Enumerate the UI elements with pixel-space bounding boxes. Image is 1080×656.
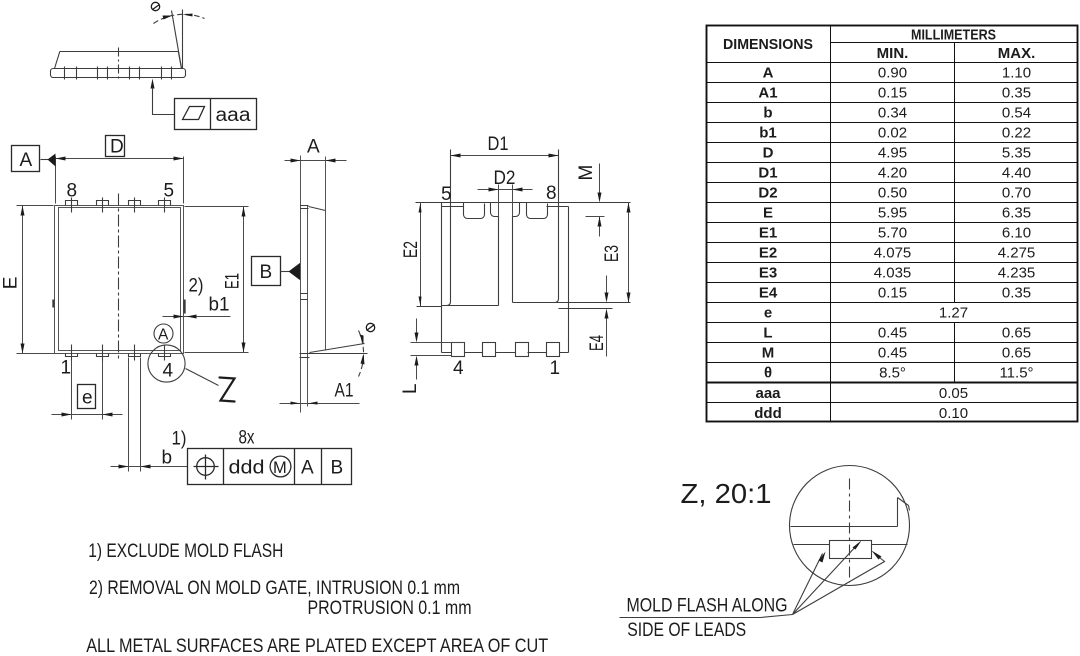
dimension b1 line bbox=[163, 316, 231, 318]
flatness leader arrow to strip bbox=[151, 79, 155, 89]
theta arc arrowhead right bbox=[183, 14, 193, 17]
dimension E1 arrowheads bbox=[242, 207, 246, 217]
M circle modifier bbox=[270, 456, 291, 477]
svg-text:0.35: 0.35 bbox=[1002, 85, 1031, 102]
svg-text:A: A bbox=[307, 137, 320, 158]
svg-text:4.40: 4.40 bbox=[1002, 165, 1031, 182]
pin 1 tick bbox=[71, 345, 73, 361]
svg-text:5: 5 bbox=[164, 181, 175, 202]
side view: theta horizontal reference bbox=[308, 353, 368, 355]
svg-text:B: B bbox=[331, 458, 344, 479]
svg-text:E2: E2 bbox=[401, 241, 422, 258]
svg-text:A1: A1 bbox=[758, 85, 777, 102]
bottom view: pad left edge (D1) bbox=[450, 150, 452, 302]
dimensions table frame bbox=[707, 26, 1078, 422]
dimension E3 line bbox=[628, 203, 630, 303]
svg-text:D2: D2 bbox=[494, 168, 516, 189]
svg-text:4.275: 4.275 bbox=[998, 245, 1036, 262]
dimension A arrowheads bbox=[291, 159, 301, 163]
parallelogram flatness symbol bbox=[183, 107, 205, 120]
pin 7 tab (top) bbox=[97, 201, 109, 206]
bottom lead square pin 4 bbox=[452, 343, 465, 357]
svg-text:11.5°: 11.5° bbox=[999, 365, 1033, 382]
detail Z seating plane right bbox=[872, 544, 908, 546]
side view: top draft slant bbox=[309, 207, 326, 211]
dimension A line bbox=[285, 160, 347, 162]
svg-text:1.10: 1.10 bbox=[1002, 65, 1031, 82]
dimension E2 line bbox=[420, 203, 422, 307]
svg-text:0.10: 0.10 bbox=[939, 405, 968, 422]
bottom lead square pin 3 bbox=[483, 343, 496, 357]
svg-text:M: M bbox=[273, 459, 287, 477]
table column dividers bbox=[830, 26, 832, 423]
svg-text:MILLIMETERS: MILLIMETERS bbox=[911, 26, 996, 43]
bottom lead square pin 1 bbox=[547, 343, 560, 357]
svg-text:D2: D2 bbox=[758, 185, 777, 202]
theta draft extension line (slanted) bbox=[172, 11, 182, 69]
bottom view: body left edge bbox=[441, 203, 443, 353]
svg-text:0.70: 0.70 bbox=[1002, 185, 1031, 202]
side view theta arrowhead lower bbox=[361, 354, 365, 365]
detail Z arrowhead 3 bbox=[872, 551, 882, 560]
bottom view: E2 bottom extension line bbox=[417, 306, 442, 308]
dimension b1 arrowheads bbox=[174, 315, 184, 319]
svg-text:A1: A1 bbox=[335, 381, 354, 402]
dimension L extension bbox=[411, 343, 465, 356]
side profile view: mold body bbox=[55, 52, 182, 69]
svg-text:0.05: 0.05 bbox=[939, 385, 968, 402]
svg-text:4.235: 4.235 bbox=[998, 265, 1036, 282]
dimension D2 line and extensions bbox=[478, 185, 533, 217]
svg-text:0.54: 0.54 bbox=[1002, 105, 1031, 122]
svg-text:1.27: 1.27 bbox=[939, 305, 968, 322]
svg-text:1: 1 bbox=[61, 358, 72, 379]
svg-text:SIDE OF LEADS: SIDE OF LEADS bbox=[627, 619, 746, 641]
theta symbol (top) bbox=[151, 2, 159, 10]
svg-text:2): 2) bbox=[189, 276, 204, 297]
dimension E3 arrowheads bbox=[627, 203, 631, 213]
detail Z circle around pin 4 bbox=[148, 345, 185, 382]
top view: package outer outline bbox=[55, 206, 184, 354]
svg-text:8: 8 bbox=[67, 181, 78, 202]
bottom view: right pad bottom bbox=[513, 299, 559, 303]
side view: bottom plane line bbox=[300, 156, 302, 413]
flatness feature control frame bbox=[175, 99, 257, 130]
dimension L line bbox=[416, 319, 418, 380]
svg-text:0.15: 0.15 bbox=[878, 85, 907, 102]
dimension D1 arrowheads bbox=[451, 154, 461, 158]
dimension D extension lines bbox=[56, 157, 184, 204]
detail Z leader bbox=[186, 369, 219, 386]
svg-text:L: L bbox=[400, 383, 421, 394]
svg-text:8x: 8x bbox=[239, 428, 255, 449]
dimension A1 arrowheads bbox=[291, 402, 301, 405]
dimension D2 arrowheads bbox=[489, 188, 499, 192]
dimension D arrowheads bbox=[56, 157, 66, 161]
svg-text:E3: E3 bbox=[602, 245, 623, 262]
svg-text:1) EXCLUDE MOLD FLASH: 1) EXCLUDE MOLD FLASH bbox=[88, 540, 283, 562]
bottom view: scallop notch 1 bbox=[464, 203, 485, 219]
datum A leader bbox=[41, 159, 49, 161]
svg-text:ddd: ddd bbox=[754, 405, 782, 422]
svg-text:e: e bbox=[82, 388, 93, 409]
detail Z circle boundary bbox=[790, 466, 910, 586]
svg-text:E3: E3 bbox=[759, 265, 777, 282]
dimension E4 arrowheads bbox=[605, 293, 609, 303]
dimension E extension lines bbox=[17, 206, 63, 354]
bottom lead square pin 2 bbox=[516, 343, 529, 357]
pin 5 tick bbox=[164, 198, 166, 213]
svg-text:L: L bbox=[763, 325, 772, 342]
dimension A1 line bbox=[280, 403, 360, 405]
svg-text:MAX.: MAX. bbox=[998, 45, 1036, 62]
dimension L arrowheads bbox=[415, 333, 419, 343]
svg-text:2) REMOVAL ON MOLD GATE, INTRU: 2) REMOVAL ON MOLD GATE, INTRUSION 0.1 m… bbox=[89, 577, 460, 599]
svg-text:A: A bbox=[158, 327, 169, 344]
bottom view: E3 extension line bbox=[554, 302, 631, 304]
detail Z letter bbox=[220, 378, 235, 402]
theta arc arrowhead left bbox=[163, 16, 173, 20]
bottom view: scallop notch 2 bbox=[527, 203, 548, 219]
dimension M line bbox=[599, 164, 601, 237]
svg-text:0.35: 0.35 bbox=[1002, 285, 1031, 302]
datum target circle A bbox=[154, 324, 173, 343]
svg-text:4.075: 4.075 bbox=[874, 245, 912, 262]
svg-text:M: M bbox=[762, 345, 775, 362]
dimension e label box bbox=[78, 385, 96, 409]
svg-text:E1: E1 bbox=[759, 225, 777, 242]
detail Z body corner edge bbox=[898, 498, 910, 527]
svg-text:B: B bbox=[260, 262, 273, 283]
svg-text:E1: E1 bbox=[223, 273, 244, 289]
svg-text:A: A bbox=[20, 150, 33, 171]
detail Z arrowhead 2 bbox=[853, 541, 862, 550]
side view: bottom draft slant extended bbox=[310, 344, 365, 353]
datum A box bbox=[12, 146, 40, 172]
bottom view: center gap right half-scallop and edge bbox=[513, 203, 520, 303]
theta vertical reference line bbox=[182, 10, 184, 69]
svg-text:6.35: 6.35 bbox=[1002, 205, 1031, 222]
svg-text:b: b bbox=[162, 448, 173, 469]
detail Z lead cross-section bbox=[830, 541, 872, 559]
svg-text:MIN.: MIN. bbox=[877, 45, 909, 62]
position symbol bbox=[197, 458, 215, 476]
svg-text:D1: D1 bbox=[488, 134, 509, 155]
svg-text:5: 5 bbox=[441, 184, 452, 205]
datum B triangle bbox=[289, 263, 301, 281]
pin 6 tick bbox=[134, 198, 136, 213]
svg-text:E: E bbox=[763, 205, 773, 222]
svg-text:5.70: 5.70 bbox=[878, 225, 907, 242]
detail Z centerline bbox=[849, 479, 851, 583]
svg-text:PROTRUSION 0.1 mm: PROTRUSION 0.1 mm bbox=[308, 597, 472, 619]
svg-text:E4: E4 bbox=[759, 285, 778, 302]
pin 8 tick bbox=[71, 198, 73, 213]
dimension M arrowheads bbox=[598, 193, 602, 203]
svg-text:0.45: 0.45 bbox=[878, 345, 907, 362]
svg-text:b1: b1 bbox=[759, 125, 777, 142]
mold gate mark left edge bbox=[52, 300, 54, 308]
datum B leader bbox=[281, 271, 290, 273]
table row dividers bbox=[707, 83, 1078, 363]
pin 2 tab (bottom) bbox=[97, 354, 109, 357]
detail Z package bottom surface bbox=[791, 526, 898, 528]
dimension D line bbox=[56, 158, 184, 160]
pin 5 tab (top) bbox=[159, 201, 171, 206]
side view: top lead step bbox=[301, 206, 309, 209]
flatness leader line bbox=[153, 88, 175, 115]
svg-text:0.22: 0.22 bbox=[1002, 125, 1031, 142]
svg-text:0.02: 0.02 bbox=[878, 125, 907, 142]
svg-text:ddd: ddd bbox=[229, 458, 265, 479]
dimension E1 extension lines bbox=[185, 207, 249, 353]
detail Z seating plane left bbox=[794, 544, 830, 546]
dimension D1 line bbox=[451, 155, 559, 157]
svg-text:b1: b1 bbox=[209, 295, 230, 316]
bottom view: top edge line bbox=[416, 202, 631, 204]
svg-text:M: M bbox=[576, 165, 597, 181]
dimension E4 line bbox=[606, 276, 608, 357]
datum A triangle bbox=[48, 154, 56, 167]
detail Z arrowhead 1 bbox=[819, 552, 826, 563]
svg-text:E4: E4 bbox=[587, 335, 608, 351]
side profile view: leadframe strip bbox=[51, 69, 186, 78]
svg-text:5.95: 5.95 bbox=[878, 205, 907, 222]
side view theta arrowhead upper bbox=[360, 335, 364, 345]
svg-text:b: b bbox=[763, 105, 772, 122]
position tolerance feature control frame bbox=[188, 449, 352, 485]
dimension E line bbox=[22, 206, 24, 354]
svg-text:aaa: aaa bbox=[216, 105, 251, 126]
svg-text:4.035: 4.035 bbox=[874, 265, 912, 282]
pin 1 tab (bottom) bbox=[66, 354, 78, 357]
svg-text:E: E bbox=[1, 277, 22, 290]
svg-text:A: A bbox=[763, 65, 774, 82]
svg-text:D: D bbox=[763, 145, 774, 162]
svg-text:E2: E2 bbox=[759, 245, 777, 262]
bottom view: pad right edge (D1) bbox=[558, 150, 560, 299]
side view theta symbol bbox=[366, 323, 374, 331]
svg-text:6.10: 6.10 bbox=[1002, 225, 1031, 242]
svg-text:D1: D1 bbox=[758, 165, 777, 182]
dimension M extension bbox=[586, 216, 605, 218]
svg-text:e: e bbox=[764, 305, 772, 322]
svg-text:4: 4 bbox=[163, 361, 174, 382]
svg-text:θ: θ bbox=[764, 365, 772, 382]
pin 4 tick bbox=[164, 345, 166, 361]
datum B box bbox=[252, 257, 281, 286]
svg-text:MOLD FLASH ALONG: MOLD FLASH ALONG bbox=[627, 595, 788, 617]
dimension b arrowheads bbox=[119, 465, 129, 469]
bottom view: E4 lead shelf line bbox=[559, 308, 613, 310]
side view: bottom lead step bbox=[300, 354, 310, 358]
side view: lead inner line bbox=[307, 206, 309, 407]
svg-text:4: 4 bbox=[453, 358, 464, 379]
bottom view: body bottom edge bbox=[442, 352, 569, 354]
svg-text:1): 1) bbox=[172, 429, 187, 450]
mold flash callout underline 1 bbox=[620, 615, 793, 618]
pin 7 tick bbox=[102, 198, 104, 213]
dimension E1 line bbox=[243, 207, 245, 353]
side view: body top line bbox=[325, 157, 327, 351]
svg-text:8.5°: 8.5° bbox=[879, 365, 906, 382]
dimension e line bbox=[52, 414, 123, 416]
svg-text:0.90: 0.90 bbox=[878, 65, 907, 82]
svg-text:5.35: 5.35 bbox=[1002, 145, 1031, 162]
dimension e arrowheads bbox=[62, 413, 72, 417]
pin 3 tick bbox=[134, 345, 136, 361]
pin 6 tab (top) bbox=[129, 201, 141, 206]
svg-text:4.20: 4.20 bbox=[878, 165, 907, 182]
svg-text:aaa: aaa bbox=[755, 385, 781, 402]
pin 3 tab (bottom) bbox=[129, 354, 141, 357]
dimension b extension lines bbox=[129, 358, 141, 472]
svg-text:0.65: 0.65 bbox=[1002, 325, 1031, 342]
table header dividers bbox=[831, 42, 1078, 44]
detail Z leader lines bbox=[793, 544, 885, 615]
pin 4 tab (bottom) bbox=[159, 354, 171, 357]
svg-text:4.95: 4.95 bbox=[878, 145, 907, 162]
dimension E arrowheads bbox=[21, 206, 25, 216]
dimension D label box bbox=[106, 136, 125, 157]
centerline of top view bbox=[118, 194, 120, 362]
dimension b line bbox=[111, 466, 188, 468]
svg-text:1: 1 bbox=[550, 358, 561, 379]
centerline of profile view bbox=[118, 48, 120, 81]
bottom view: body right edge bbox=[568, 207, 570, 353]
svg-text:A: A bbox=[301, 458, 314, 479]
theta dimension arc bbox=[154, 14, 205, 23]
top view: package inner outline bbox=[59, 208, 181, 351]
bottom view: pad top edge segments bbox=[442, 206, 569, 208]
svg-text:0.65: 0.65 bbox=[1002, 345, 1031, 362]
svg-text:0.34: 0.34 bbox=[878, 105, 907, 122]
svg-text:Z, 20:1: Z, 20:1 bbox=[681, 478, 772, 509]
svg-text:8: 8 bbox=[546, 183, 557, 204]
side view theta arc bbox=[359, 331, 364, 377]
bottom view: left pad bottom bbox=[442, 302, 499, 306]
pin 8 tab (top) bbox=[66, 201, 78, 206]
svg-text:D: D bbox=[110, 137, 124, 158]
lead tick marks on strip bbox=[65, 67, 172, 80]
svg-text:0.45: 0.45 bbox=[878, 325, 907, 342]
svg-text:DIMENSIONS: DIMENSIONS bbox=[723, 36, 813, 53]
bottom view: center gap left half-scallop and edge bbox=[491, 203, 499, 306]
svg-text:ALL METAL SURFACES ARE PLATED: ALL METAL SURFACES ARE PLATED EXCEPT ARE… bbox=[86, 635, 548, 656]
pin 2 tick bbox=[102, 345, 104, 361]
mold gate mark right edge (b1 feature) bbox=[183, 300, 185, 314]
side view: mold gate ticks bbox=[301, 294, 308, 300]
svg-text:0.15: 0.15 bbox=[878, 285, 907, 302]
svg-text:0.50: 0.50 bbox=[878, 185, 907, 202]
dimension e extension lines bbox=[72, 361, 103, 420]
dimension E2 arrowheads bbox=[419, 203, 422, 213]
